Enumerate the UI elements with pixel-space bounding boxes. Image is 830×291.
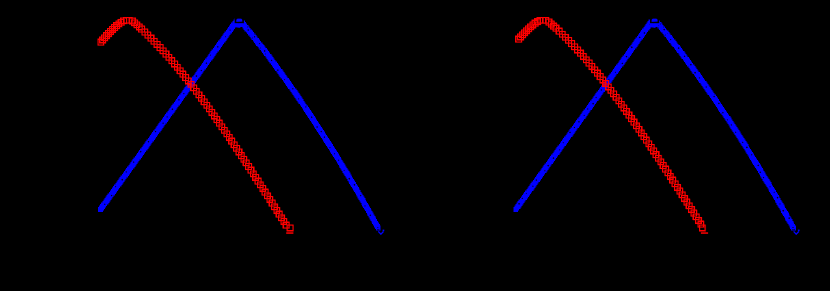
left plot: red curve clipped end marker (dash) (286, 232, 293, 234)
right plot: blue curve marker holes (dark specks) (518, 18, 790, 219)
left plot: blue spectrum curve (dense open square markers) (99, 17, 381, 230)
left plot: blue curve marker holes (dark specks) (104, 19, 371, 216)
left plot: red ring marker at curve crossing (188, 81, 192, 85)
right plot: red curve clipped end marker (dash) (701, 232, 708, 234)
right plot: red spectrum curve (chain of open square markers) (516, 17, 705, 230)
left plot: blue curve end chevron marker (378, 231, 383, 234)
right plot: apex clip (flatten band tip) (650, 13, 659, 23)
right plot: blue curve end chevron marker (794, 231, 799, 234)
left plot: blue apex junction fill (235, 23, 245, 28)
right plot: red curve soft overlay (516, 18, 705, 231)
left plot: red curve soft overlay (98, 18, 293, 231)
left plot: blue apex cap marker (236, 19, 242, 22)
right plot: blue apex cap marker (652, 19, 658, 22)
right plot: red ring marker at curve crossing (602, 81, 606, 85)
left plot: apex clip (flatten band tip) (235, 13, 244, 23)
left plot: red spectrum curve (chain of open square markers) (98, 17, 293, 230)
right plot: blue apex junction fill (650, 23, 660, 28)
right plot: blue spectrum curve (dense open square markers) (514, 17, 796, 230)
